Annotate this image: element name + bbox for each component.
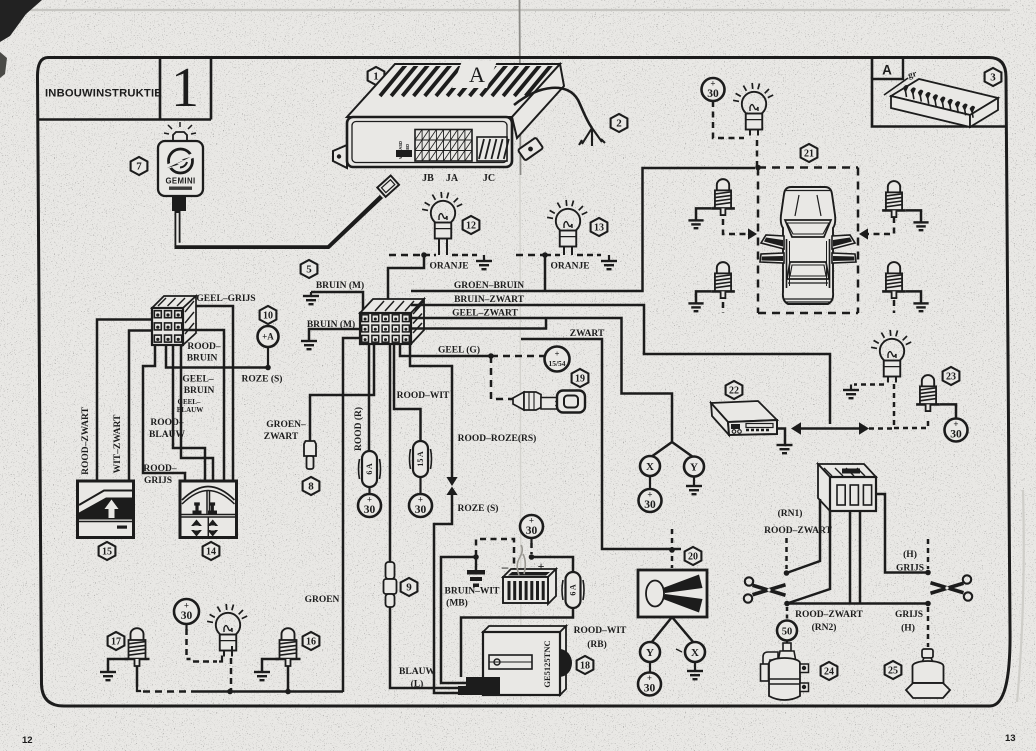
wire RN2 rail to sensor [787, 602, 928, 605]
wire dashed to horn [671, 529, 674, 568]
hex label 24 [821, 662, 838, 680]
svg-text:6 A: 6 A [569, 584, 578, 596]
svg-text:ROOD–WIT: ROOD–WIT [397, 391, 450, 401]
wire lamp17 prong down [136, 666, 139, 687]
svg-text:15/54: 15/54 [548, 359, 565, 368]
terminal X lower [685, 642, 705, 662]
wire relay right to GRIJS cut [876, 494, 928, 573]
wire ZWART [521, 339, 681, 549]
node roze junction [265, 365, 271, 371]
node rail junction bulb [227, 689, 233, 695]
terminal Y lower [640, 642, 660, 662]
hex label 10 [260, 306, 277, 324]
svg-text:BRUIN: BRUIN [184, 386, 215, 396]
svg-text:+: + [538, 559, 545, 573]
control unit right side [512, 64, 564, 138]
wire GEEL (G) [400, 344, 491, 356]
svg-text:(MB): (MB) [446, 598, 468, 609]
dashed corner to arrow link [869, 427, 894, 430]
bullet connector 8 [304, 441, 316, 469]
svg-text:(L): (L) [411, 679, 424, 690]
marker lamp left rear ground [688, 303, 703, 311]
hex label 23 [943, 367, 960, 385]
warning bulb 12 [422, 192, 462, 245]
courtesy lamp 16 [276, 628, 301, 666]
ground lamp 16 [254, 672, 270, 680]
svg-text:22: 22 [729, 386, 739, 397]
scissors GRIJS [930, 575, 972, 600]
antenna wire [514, 88, 592, 128]
svg-text:12: 12 [466, 221, 476, 232]
svg-text:GROEN–: GROEN– [266, 420, 306, 430]
terminal +30 under X [639, 489, 662, 512]
terminal +A [258, 326, 279, 347]
control unit front face [347, 117, 512, 167]
gemini unit box U7 [158, 141, 203, 196]
wire lamp17 to ground [108, 659, 128, 672]
node cut RN1 [784, 570, 790, 576]
wire ROOD-ZWART to switch 15 [97, 320, 152, 482]
svg-text:30: 30 [950, 429, 962, 441]
wire dashed from +30 to bulb [187, 629, 191, 659]
battery MB [503, 569, 556, 604]
dashed to sensor 25 [927, 607, 930, 647]
wire relay RN2 to cut point [787, 511, 830, 604]
ground under lower X [687, 671, 703, 679]
dip switch block 3 [891, 79, 998, 127]
svg-text:(H): (H) [903, 549, 917, 560]
svg-text:23: 23 [946, 372, 956, 383]
node rail junction lamp16 [285, 689, 291, 695]
svg-text:10: 10 [263, 311, 273, 322]
svg-text:ROOD–ZWART: ROOD–ZWART [81, 406, 91, 474]
dashed lamp links to perimeter [723, 219, 749, 234]
svg-text:30: 30 [526, 525, 538, 537]
ground bruin M upper [310, 292, 312, 296]
node zwart-horn junction [669, 547, 675, 553]
svg-text:7: 7 [136, 161, 142, 173]
svg-text:BLAUW: BLAUW [399, 667, 435, 677]
wire rood continues to unit connector [390, 607, 466, 688]
wire dashed lamp17 to rail [137, 687, 141, 691]
connector JC block [477, 137, 509, 161]
label A box [872, 57, 903, 79]
svg-text:–: – [501, 559, 509, 574]
terminal +30 interior light [174, 599, 199, 624]
hex label 15 [99, 542, 116, 560]
hex label 12 [463, 216, 480, 234]
wire bulb23 dashed to ground [854, 383, 884, 386]
gemini LED indicator [164, 122, 196, 141]
marker lamp right front [882, 181, 906, 217]
svg-text:BRUIN (M): BRUIN (M) [316, 280, 364, 291]
svg-text:INBOUWINSTRUKTIE: INBOUWINSTRUKTIE [45, 88, 162, 100]
wire bulb23 dashed down [893, 384, 896, 428]
svg-text:(RN1): (RN1) [778, 508, 803, 519]
node oranje junction [421, 252, 427, 258]
wire bulb to car feed [756, 140, 759, 166]
svg-text:3: 3 [990, 72, 996, 84]
svg-text:+: + [184, 600, 189, 610]
terminal +30 under 15A fuse [409, 494, 432, 517]
svg-text:18: 18 [580, 661, 590, 672]
svg-text:GEEL (G): GEEL (G) [438, 345, 480, 356]
svg-text:13: 13 [594, 223, 604, 234]
svg-text:50: 50 [782, 626, 793, 637]
wire geel dashed to ignition switch [491, 356, 513, 399]
wire oranje2 down to groen-bruin line [544, 255, 547, 291]
ground radio [777, 445, 793, 453]
terminal +30 bulb23 [945, 419, 968, 442]
svg-text:24: 24 [824, 667, 834, 678]
wire bruin-wit to unit [441, 557, 476, 683]
door-lock switch 15 [78, 481, 134, 538]
wire GROEN vertical [343, 338, 360, 692]
oil pressure sensor 25 [906, 649, 950, 698]
svg-text:JC: JC [483, 173, 495, 184]
node oranje junction 2 [542, 252, 548, 258]
svg-text:GEMINI: GEMINI [165, 177, 195, 186]
wire lamp16 to ground [262, 659, 279, 672]
scissors RN1 [744, 577, 786, 602]
svg-text:GRIJS: GRIJS [144, 476, 172, 486]
terminal Y upper [684, 457, 704, 477]
svg-text:12: 12 [22, 735, 33, 746]
wire oranje to connector [388, 255, 424, 313]
gemini plug [172, 196, 186, 211]
warning bulb 13 [547, 200, 587, 253]
marker lamp right rear ground [913, 303, 928, 311]
node geel junction [488, 353, 494, 359]
left connector X10 body [152, 296, 196, 345]
svg-text:(RB): (RB) [587, 639, 607, 650]
svg-text:ROOD–ROZE(RS): ROOD–ROZE(RS) [458, 433, 537, 444]
node car feed [755, 165, 761, 171]
svg-text:GEEL–ZWART: GEEL–ZWART [452, 309, 518, 319]
interior bulb [207, 604, 247, 657]
hex label 5 [301, 260, 318, 278]
svg-text:ROOD–ZWART: ROOD–ZWART [795, 610, 863, 620]
svg-text:+: + [710, 78, 715, 88]
wire lamp16 prong to rail [287, 666, 290, 692]
hex label 16 [303, 632, 320, 650]
svg-text:6 A: 6 A [365, 463, 374, 475]
svg-text:19: 19 [575, 374, 585, 385]
wire GROEN-BRUIN to car circuit [411, 168, 755, 291]
dashed to terminal 50 [786, 607, 789, 619]
dashed harness RN1 [785, 538, 788, 569]
page top edge line [30, 9, 1010, 11]
wire bruin M lower to ground [309, 329, 360, 341]
svg-text:13: 13 [1005, 733, 1016, 744]
hex label 17 [108, 632, 125, 650]
terminal 15/54 [545, 347, 570, 372]
wire ROOD-WIT to fuse 15A [394, 344, 421, 441]
wire ROOD-ROZE RS from connector [410, 344, 452, 477]
terminal +30 battery [520, 515, 543, 538]
ground bulb 13 [608, 255, 610, 261]
wire GROEN-ZWART to bullet 8 [310, 344, 374, 441]
svg-text:A: A [882, 63, 892, 78]
title box INBOUWINSTRUKTIE [38, 58, 212, 120]
bottom-right page shading [1017, 490, 1024, 702]
ground bruin M lower [301, 341, 317, 349]
wire relay RN1 to cut point [787, 499, 821, 573]
dashed link battery minus [476, 539, 514, 570]
svg-text:30: 30 [415, 504, 427, 516]
wire lamp23 to +30 [940, 404, 956, 418]
svg-text:17: 17 [111, 637, 121, 648]
warning bulb 23 [871, 330, 911, 383]
node bruin-wit junction [473, 554, 479, 560]
relay connector RN [818, 464, 876, 511]
battery smoke [517, 545, 525, 575]
car body top view [760, 187, 856, 304]
svg-text:14: 14 [206, 547, 216, 558]
wire GEEL-BRUIN to switch 14 [173, 345, 205, 481]
wire radio to ground [777, 429, 785, 446]
svg-text:2: 2 [616, 118, 622, 130]
wire WIT-ZWART to switch 15 [129, 331, 152, 482]
wire GEEL-ZWART to X/Y [411, 318, 672, 442]
left mounting tab [333, 145, 347, 168]
svg-text:30: 30 [707, 88, 719, 100]
ground under Y [686, 486, 702, 494]
door switches 14 [180, 481, 237, 538]
wire groen rail [196, 690, 343, 693]
fold crease [520, 0, 521, 175]
hex label 8 [303, 477, 320, 495]
svg-text:+: + [418, 494, 423, 504]
svg-text:15: 15 [102, 547, 112, 558]
wire ROOD (R) with fuse [368, 344, 371, 451]
svg-text:30: 30 [644, 683, 656, 695]
gemini logo [167, 149, 194, 173]
wire horn V split [651, 617, 694, 643]
svg-text:+: + [647, 489, 652, 499]
wire GEEL-GRIJS [196, 306, 233, 481]
svg-text:(H): (H) [901, 623, 915, 634]
two-way arrow link [799, 427, 862, 429]
svg-text:WIT–ZWART: WIT–ZWART [113, 414, 123, 473]
terminal +30 under lower Y [638, 673, 661, 696]
pilot lamp 23 [916, 375, 940, 411]
svg-text:BRUIN–WIT: BRUIN–WIT [445, 587, 501, 597]
svg-text:9: 9 [406, 582, 412, 594]
ground lamp 17 [100, 672, 116, 680]
hex label 1 [368, 67, 385, 85]
connector JB JA grid [415, 130, 472, 162]
node sensor feed [925, 601, 931, 607]
wire bruin M upper to ground [311, 292, 363, 313]
wire roze-s down to unit [434, 495, 466, 693]
wire ROOD-BRUIN [183, 330, 224, 481]
svg-text:21: 21 [804, 149, 814, 160]
option box A frame [872, 57, 1006, 127]
hex label 3 [985, 68, 1002, 86]
svg-text:ORANJE: ORANJE [429, 262, 468, 272]
top-left corner mark [0, 0, 42, 42]
hex label 25 [885, 661, 902, 679]
svg-text:ROOD (R): ROOD (R) [353, 407, 364, 451]
svg-text:GEEL–: GEEL– [182, 375, 213, 385]
hex label 7 [131, 157, 148, 175]
svg-text:ROOD–WIT: ROOD–WIT [574, 626, 627, 636]
svg-text:JB: JB [422, 173, 434, 184]
ignition coil 24 [761, 643, 809, 700]
svg-text:BRUIN–ZWART: BRUIN–ZWART [454, 295, 525, 305]
svg-text:(RN2): (RN2) [812, 622, 837, 633]
wire gemini cable to main unit [178, 196, 382, 246]
svg-text:Y: Y [646, 647, 654, 659]
svg-text:5: 5 [306, 264, 312, 276]
svg-text:ZWART: ZWART [570, 329, 605, 339]
svg-text:X: X [691, 647, 699, 659]
svg-text:ROZE (S): ROZE (S) [458, 503, 499, 514]
antenna whisk 2 [579, 128, 605, 146]
node cut GRIJS [925, 570, 931, 576]
terminal +30 under 6A fuse [358, 494, 381, 517]
svg-text:+: + [529, 515, 534, 525]
wire bulb12 prongs to rail [439, 243, 447, 255]
wire ROOD long to inline fuse 9 [389, 344, 392, 563]
ground bulb 12 [483, 255, 485, 261]
svg-text:GROEN–BRUIN: GROEN–BRUIN [454, 281, 524, 291]
hex label 13 [591, 218, 608, 236]
marker lamp left front ground [688, 220, 703, 228]
svg-text:GE5125TNC: GE5125TNC [542, 640, 552, 687]
dashed harness GRIJS [927, 539, 930, 569]
svg-text:8: 8 [308, 481, 314, 493]
svg-text:JA: JA [446, 173, 459, 184]
svg-text:ROZE (S): ROZE (S) [242, 374, 283, 385]
inline fuse holder 9 [384, 562, 397, 607]
svg-text:Y: Y [690, 461, 698, 473]
marker lamp right front ground [913, 222, 928, 230]
svg-text:+: + [367, 494, 372, 504]
right mounting tab [518, 137, 543, 160]
svg-text:X: X [646, 461, 654, 473]
svg-text:BRUIN: BRUIN [187, 354, 218, 364]
wires relay centre pins [850, 511, 860, 604]
radio unit 22 [711, 401, 777, 435]
wire bulb13 prongs [564, 251, 572, 255]
svg-text:+: + [555, 349, 560, 359]
horn box 20 [638, 570, 707, 617]
marker lamp right rear [882, 262, 906, 298]
svg-text:ORANJE: ORANJE [550, 262, 589, 272]
wire dashed +30 to junction [530, 543, 533, 554]
dashed perimeter around car [758, 166, 858, 169]
wire plus to 6A fuse [532, 557, 574, 572]
svg-text:ZWART: ZWART [264, 432, 299, 442]
ground bulb 23 [850, 385, 852, 391]
terminal +30 knipper [702, 78, 725, 101]
knipper bulb [733, 83, 773, 136]
svg-text:+: + [953, 419, 958, 429]
wire ROZE (S) left [166, 345, 268, 368]
fuse 6A rood [359, 451, 381, 487]
svg-text:ROOD–ZWART: ROOD–ZWART [764, 526, 832, 536]
hex label 18 [577, 656, 594, 674]
main unit plug [377, 176, 399, 197]
courtesy lamp 17 [125, 628, 150, 666]
svg-text:30: 30 [181, 610, 193, 622]
wire V split to X and Y [651, 442, 693, 457]
wire geel dashed to 15/54 [491, 355, 544, 358]
wire dashed +30 to bulb [713, 101, 744, 138]
wire BRUIN-ZWART to relay [411, 305, 830, 424]
wire GEEL-BLAUW to switch 14 [181, 345, 213, 481]
hex label 20 [685, 547, 702, 565]
svg-text:A: A [469, 62, 485, 87]
svg-text:16: 16 [306, 637, 316, 648]
terminal X upper [640, 456, 660, 476]
svg-text:+: + [647, 673, 652, 683]
svg-text:ROOD–: ROOD– [150, 418, 184, 428]
ignition lock with key 19 [513, 391, 585, 413]
marker lamp left rear [711, 262, 735, 298]
svg-text:GROEN: GROEN [305, 595, 340, 605]
connection arrows on RS wire [446, 477, 457, 486]
hex label 14 [203, 542, 220, 560]
main connector X5 body [360, 299, 424, 344]
wire oranje dashed rail right [516, 254, 545, 257]
wire oranje dashed rail left [389, 254, 424, 257]
unit cable connector black [458, 677, 500, 695]
marker lamp left front [711, 179, 735, 215]
node plus junction [529, 554, 535, 560]
svg-text:GEEL–GRIJS: GEEL–GRIJS [196, 294, 255, 304]
wire ROOD-GRIJS to switch 14 [143, 345, 185, 481]
svg-text:1: 1 [373, 71, 379, 83]
svg-text:15 A: 15 A [416, 451, 425, 467]
svg-text:GRIJS: GRIJS [896, 564, 924, 574]
svg-text:25: 25 [888, 666, 898, 677]
hex label 21 [801, 144, 818, 162]
svg-text:ROOD–: ROOD– [187, 342, 221, 352]
GE5125TNC unit 18 [483, 626, 572, 695]
hex label 2 [611, 114, 628, 132]
svg-text:30: 30 [644, 499, 656, 511]
wire bulb right prong dashed down [231, 646, 233, 656]
fuse 15A [410, 441, 432, 477]
hex label 9 [401, 578, 418, 596]
node cut RN2 [784, 601, 790, 607]
hex label 22 [726, 381, 743, 399]
fuse 6A battery [562, 572, 584, 608]
svg-text:+A: +A [262, 332, 274, 342]
wire fuse to unit [461, 608, 573, 677]
svg-text:20: 20 [688, 552, 698, 563]
terminal 50 [777, 621, 797, 641]
svg-text:GRIJS: GRIJS [895, 610, 923, 620]
svg-text:30: 30 [364, 504, 376, 516]
hex label 19 [572, 369, 589, 387]
ground bruin-wit heavy [475, 557, 477, 570]
svg-text:1: 1 [171, 57, 199, 119]
